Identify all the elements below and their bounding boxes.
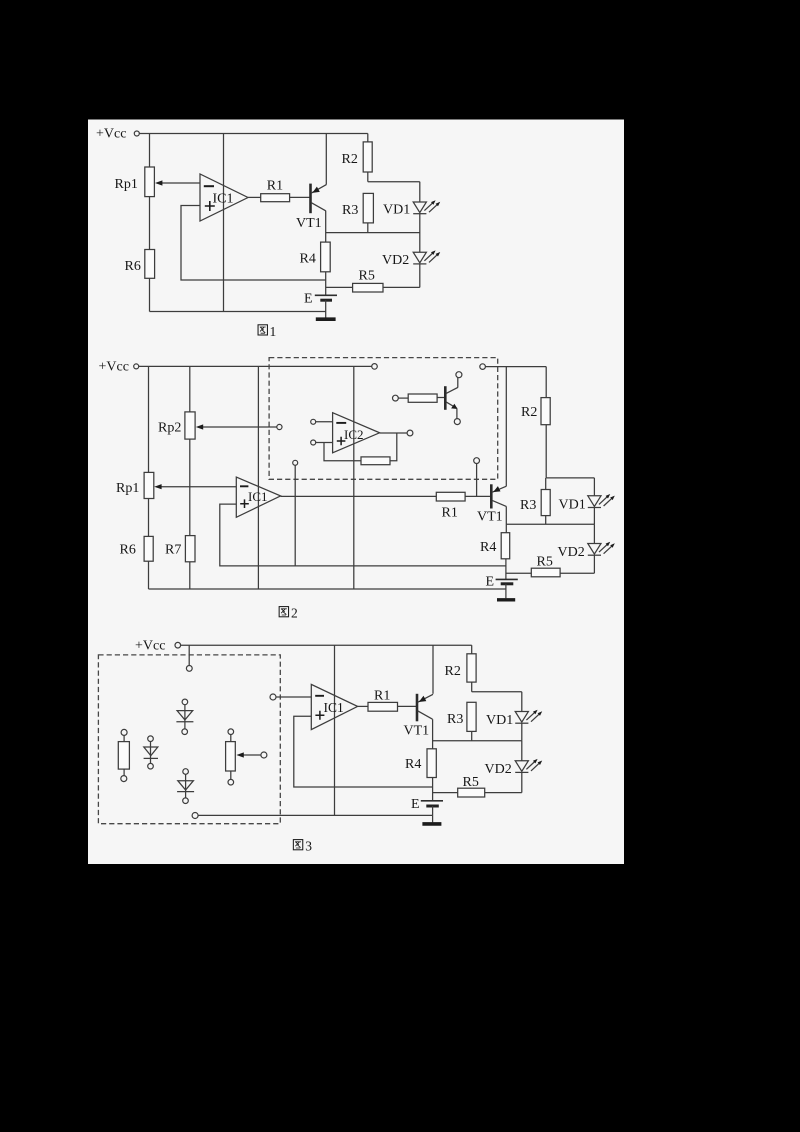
- svg-text:R5: R5: [463, 775, 479, 790]
- LED VD1 (fig2): [559, 478, 615, 524]
- wire R1 to VT1 base (fig3): [398, 705, 417, 707]
- svg-text:R4: R4: [480, 540, 496, 555]
- terminal on top rail inside module (fig2): [372, 364, 378, 370]
- resistor R2 (fig1): [342, 134, 373, 182]
- svg-text:+Vcc: +Vcc: [135, 639, 165, 654]
- ground (fig2): [497, 589, 515, 600]
- wire Vcc top rail (fig3): [181, 644, 472, 646]
- wire collector node to VD junction (fig3): [433, 740, 522, 742]
- wire Rp2 wiper to module input terminal (fig2): [196, 424, 282, 429]
- node +Vcc (fig1): [96, 127, 139, 142]
- svg-text:R2: R2: [521, 405, 537, 420]
- svg-text:R5: R5: [359, 268, 375, 283]
- resistor R4 (fig3): [405, 749, 436, 778]
- transistor VT1 (fig2): [477, 484, 506, 524]
- wire left rail (fig2): [148, 366, 150, 589]
- node +Vcc (fig2): [99, 359, 139, 374]
- terminal IC2 inverting input (fig2): [311, 419, 333, 424]
- wire Vcc top rail (fig1): [139, 133, 367, 135]
- svg-text:3: 3: [305, 839, 312, 854]
- resistor R4 (fig2): [480, 533, 510, 559]
- battery E (fig1): [304, 291, 337, 306]
- wire IC1 output (fig1): [248, 196, 261, 198]
- resistor R5 (fig1): [326, 268, 420, 292]
- wire bottom rail (fig2): [149, 588, 506, 590]
- svg-text:VD2: VD2: [485, 762, 512, 777]
- potentiometer Rp2: [158, 412, 195, 439]
- wire IC2 output (fig2): [380, 430, 413, 436]
- resistor R1 (fig3): [368, 688, 398, 711]
- wire rail 2 (fig2): [189, 366, 191, 589]
- wire VT1 emitter to top rail (fig2): [505, 367, 507, 487]
- wire R4 to battery (fig3): [432, 778, 434, 801]
- wire battery to bottom rail (fig3): [432, 806, 434, 815]
- op-amp IC1 (fig2): [236, 477, 280, 517]
- LED VD2 (fig1): [382, 214, 440, 288]
- resistor R5 (fig3): [433, 775, 522, 797]
- transistor VT1 (fig3): [404, 694, 434, 739]
- wire R2-R3 node to VD1 (fig2): [546, 477, 594, 479]
- svg-text:IC2: IC2: [344, 427, 364, 442]
- svg-text:VT1: VT1: [296, 216, 322, 231]
- wire collector node to VD junction (fig2): [506, 523, 594, 525]
- svg-text:R3: R3: [520, 498, 536, 513]
- svg-text:VD2: VD2: [382, 253, 409, 268]
- svg-text:R4: R4: [405, 757, 421, 772]
- battery E (fig2): [486, 574, 518, 589]
- LED VD2 (fig3): [485, 741, 543, 793]
- svg-text:R1: R1: [267, 179, 283, 194]
- wire VT1 collector down (fig3): [432, 719, 434, 749]
- ground (fig3): [422, 815, 441, 824]
- sensor diode small in module (fig3): [144, 736, 158, 769]
- resistor R7 (fig2): [165, 536, 195, 562]
- svg-text:+Vcc: +Vcc: [96, 127, 126, 142]
- svg-text:IC1: IC1: [248, 489, 268, 504]
- resistor R5 (fig2): [506, 555, 595, 577]
- LED VD2 (fig2): [558, 524, 615, 573]
- op-amp IC1 (fig3): [311, 684, 357, 729]
- wire R4 to battery (fig2): [505, 559, 507, 580]
- wire rail 3 (fig2): [257, 366, 259, 589]
- potentiometer Rp1 (fig2): [116, 472, 154, 498]
- svg-text:R4: R4: [300, 252, 316, 267]
- terminal module output above VT1 (fig2): [474, 458, 480, 497]
- svg-text:VT1: VT1: [477, 509, 503, 524]
- op-amp IC1 (fig1): [200, 174, 248, 221]
- module transistor base resistor (fig2): [393, 394, 445, 402]
- wire battery to bottom rail (fig1): [325, 300, 327, 311]
- dashed module box (fig3): [98, 655, 280, 824]
- wire IC1 output to R1 (fig2): [281, 495, 437, 497]
- wire VT1 collector down (fig2): [505, 506, 507, 532]
- dashed module box (fig2): [269, 358, 498, 480]
- svg-text:Rp1: Rp1: [116, 481, 139, 496]
- svg-text:R3: R3: [342, 203, 358, 218]
- svg-text:R7: R7: [165, 542, 181, 557]
- sensor potentiometer in module (fig3): [226, 729, 267, 785]
- wire VT1 emitter to top rail (fig3): [432, 645, 434, 694]
- resistor R4 (fig1): [300, 242, 331, 272]
- sensor resistor in module (fig3): [118, 729, 129, 781]
- wire Vcc drop into module (fig3): [186, 645, 192, 671]
- feedback resistor of IC2 (fig2): [361, 457, 390, 465]
- svg-text:IC1: IC1: [213, 192, 234, 207]
- ground (fig1): [316, 312, 336, 320]
- wire VT1 emitter to R4 (fig1): [325, 211, 327, 243]
- resistor R3 (fig2): [520, 478, 550, 524]
- resistor R6 (fig2): [120, 536, 154, 561]
- wire battery to bottom rail (fig2): [505, 584, 507, 589]
- svg-text:R2: R2: [445, 664, 461, 679]
- caption 图1: [258, 324, 276, 339]
- resistor R3 (fig1): [342, 193, 373, 232]
- wire middle rail (fig3): [334, 645, 336, 815]
- resistor R1 (fig2): [436, 492, 465, 520]
- wire R2-R3 node to VD1 (fig3): [472, 691, 522, 693]
- svg-text:R2: R2: [342, 152, 358, 167]
- svg-text:R1: R1: [442, 505, 458, 520]
- wire R4 to battery (fig1): [325, 272, 327, 296]
- wire IC1 plus input feedback loop (fig3): [294, 716, 433, 787]
- wire R1 to VT1 base (fig2): [465, 495, 490, 497]
- caption 图3: [293, 839, 312, 854]
- wire emitter node to VD junction (fig1): [326, 232, 420, 234]
- resistor R2 (fig2): [521, 367, 550, 478]
- svg-text:VD1: VD1: [559, 497, 586, 512]
- wire IC2 feedback loop (fig2): [324, 433, 397, 461]
- terminal module bottom rail (fig3): [192, 813, 433, 819]
- transistor VT1 (fig1): [296, 184, 326, 231]
- wire middle rail (fig1): [223, 134, 225, 312]
- svg-text:E: E: [411, 797, 420, 812]
- LED VD1 (fig1): [383, 182, 440, 218]
- svg-text:+Vcc: +Vcc: [99, 359, 129, 374]
- svg-text:R6: R6: [125, 259, 141, 274]
- op-amp IC2 (fig2): [333, 413, 380, 453]
- sensor diode upper middle in module (fig3): [176, 699, 193, 734]
- battery E (fig3): [411, 797, 443, 812]
- wire R1 to VT1 base (fig1): [290, 196, 311, 198]
- terminal IC2 non-inverting input (fig2): [311, 440, 333, 445]
- resistor R3 (fig3): [447, 702, 476, 740]
- terminal top right of module (fig2): [480, 364, 486, 370]
- svg-text:Rp2: Rp2: [158, 421, 181, 436]
- terminal module reference (fig2): [293, 460, 298, 566]
- wire module to R2 rail (fig2): [485, 366, 546, 368]
- svg-text:2: 2: [291, 606, 298, 621]
- svg-text:VD2: VD2: [558, 545, 585, 560]
- module transistor Q (fig2): [445, 372, 462, 425]
- sensor diode lower middle in module (fig3): [177, 769, 194, 804]
- wire R2-R3 node to VD1 (fig1): [368, 181, 420, 183]
- svg-text:R6: R6: [120, 542, 136, 557]
- svg-text:R5: R5: [537, 555, 553, 570]
- wire Vcc top rail (fig2): [139, 365, 372, 367]
- svg-text:IC1: IC1: [324, 700, 344, 715]
- wire Rp1 wiper to IC1 inverting input (fig2): [154, 484, 236, 489]
- svg-text:VD1: VD1: [486, 713, 513, 728]
- wire VT1 collector to Vcc rail (fig1): [325, 134, 327, 185]
- node +Vcc (fig3): [135, 639, 181, 654]
- svg-text:1: 1: [270, 324, 277, 339]
- wire Rp1 wiper to IC1 inverting input: [155, 180, 200, 185]
- wire rail 4 (fig2): [353, 366, 355, 589]
- wire IC1 plus input feedback loop (fig2): [220, 504, 506, 566]
- caption 图2: [279, 606, 298, 621]
- svg-text:R3: R3: [447, 712, 463, 727]
- svg-text:R1: R1: [374, 688, 390, 703]
- svg-text:E: E: [486, 574, 495, 589]
- wire IC1 output (fig3): [358, 705, 368, 707]
- wire IC1 plus input feedback loop (fig1): [181, 206, 326, 281]
- svg-text:E: E: [304, 291, 313, 306]
- wire bottom rail (fig1): [150, 311, 326, 313]
- potentiometer Rp1: [115, 167, 155, 197]
- svg-text:VD1: VD1: [383, 202, 410, 217]
- wire left rail (fig1): [149, 134, 151, 312]
- svg-text:Rp1: Rp1: [115, 177, 138, 192]
- resistor R1 (fig1): [261, 179, 290, 202]
- LED VD1 (fig3): [486, 692, 542, 741]
- resistor R6: [125, 250, 155, 279]
- resistor R2 (fig3): [445, 645, 477, 692]
- terminal module output to IC1 (fig3): [270, 694, 311, 700]
- svg-text:VT1: VT1: [404, 724, 430, 739]
